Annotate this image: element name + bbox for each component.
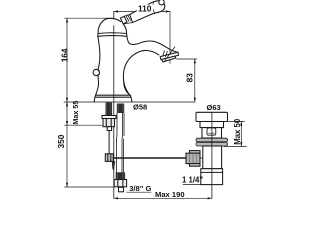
svg-text:350: 350: [56, 134, 66, 148]
base ring line 1: [96, 94, 131, 96]
drain nut bar 2: [196, 142, 228, 146]
base ring line 2: [95, 96, 131, 98]
lever end nub: [159, 0, 164, 5]
cap ring top: [98, 32, 127, 35]
body right edge lower: [124, 81, 131, 95]
drain upper body: [200, 122, 224, 128]
spout top curve: [127, 36, 177, 52]
dim 83 vertical line: [194, 59, 196, 102]
mounting nut: [103, 119, 115, 127]
svg-text:83: 83: [184, 73, 194, 83]
body left edge: [98, 36, 100, 70]
svg-text:110: 110: [138, 4, 152, 14]
supply pipe top nut (dark): [117, 104, 124, 114]
drain nut bar 1: [196, 138, 228, 142]
aerator joint marks: [163, 51, 165, 57]
leader 3/8G: [127, 191, 151, 193]
drain mid body: [202, 128, 222, 138]
svg-text:Max 190: Max 190: [155, 190, 185, 199]
aerator lower ring: [161, 56, 175, 62]
dim 164/350 vertical line: [66, 18, 68, 187]
lever cap separation: [153, 2, 155, 13]
horizontal pop-up linkage rod: [113, 157, 186, 159]
aerator outlet slab: [160, 52, 178, 59]
dome boss right: [123, 24, 126, 34]
dim 350 bottom tick: [65, 186, 114, 188]
spout bottom curve: [123, 50, 158, 95]
lever collar box: [120, 16, 127, 24]
drain centerline: [211, 112, 213, 198]
aerator cross line: [164, 47, 175, 62]
supply pipe walls: [117, 113, 125, 172]
centerline faucet axis: [113, 12, 115, 199]
deck line: [64, 101, 195, 103]
dim max190 line: [114, 197, 212, 199]
svg-text:Ø63: Ø63: [207, 103, 221, 112]
drain tube: [203, 146, 222, 169]
svg-text:Ø58: Ø58: [133, 103, 147, 112]
faucet dome cap: [98, 18, 121, 33]
arrows: [66, 10, 243, 199]
shank hatch: [106, 102, 108, 115]
svg-text:164: 164: [59, 48, 69, 62]
shank threaded (dark): [106, 102, 113, 115]
svg-text:Max 50: Max 50: [233, 118, 242, 145]
pipe outlet stub: [119, 187, 124, 192]
pipe fitting (dark): [116, 172, 125, 179]
svg-text:Max 55: Max 55: [71, 101, 80, 125]
aerator outlet tick to dim 83: [177, 58, 198, 60]
rod joint: [105, 154, 113, 162]
cap ring bottom: [98, 35, 127, 38]
rod inside drain: [186, 157, 215, 159]
dim 164 top ext: [65, 17, 114, 19]
lever collar bands: [123, 15, 132, 24]
cap ring right edge: [126, 34, 128, 37]
drain tailpiece: [201, 169, 223, 185]
pipe end nut 3/8: [114, 180, 126, 187]
svg-text:3/8" G: 3/8" G: [129, 184, 151, 193]
leader 1 1/4: [183, 184, 204, 186]
cap ring left edge: [97, 34, 99, 37]
drain set screw: [207, 128, 216, 135]
dim 110 line: [114, 11, 170, 13]
washer: [102, 116, 116, 119]
rod stub below nut: [107, 127, 111, 131]
pop-up knob: [93, 69, 99, 75]
dim max55 bottom tick: [65, 124, 104, 126]
pop-up vertical rod: [108, 131, 110, 154]
base left flare: [94, 95, 96, 102]
side coupling nut: [186, 151, 200, 167]
rod lower tip: [112, 161, 115, 169]
svg-text:1 1/4": 1 1/4": [182, 175, 203, 184]
dim 110 ext line: [169, 12, 171, 64]
dim 110 text: [137, 4, 153, 14]
drain flange: [196, 112, 228, 121]
lever handle body: [120, 0, 164, 24]
base right flare: [130, 95, 132, 102]
dim max50: [228, 120, 245, 122]
